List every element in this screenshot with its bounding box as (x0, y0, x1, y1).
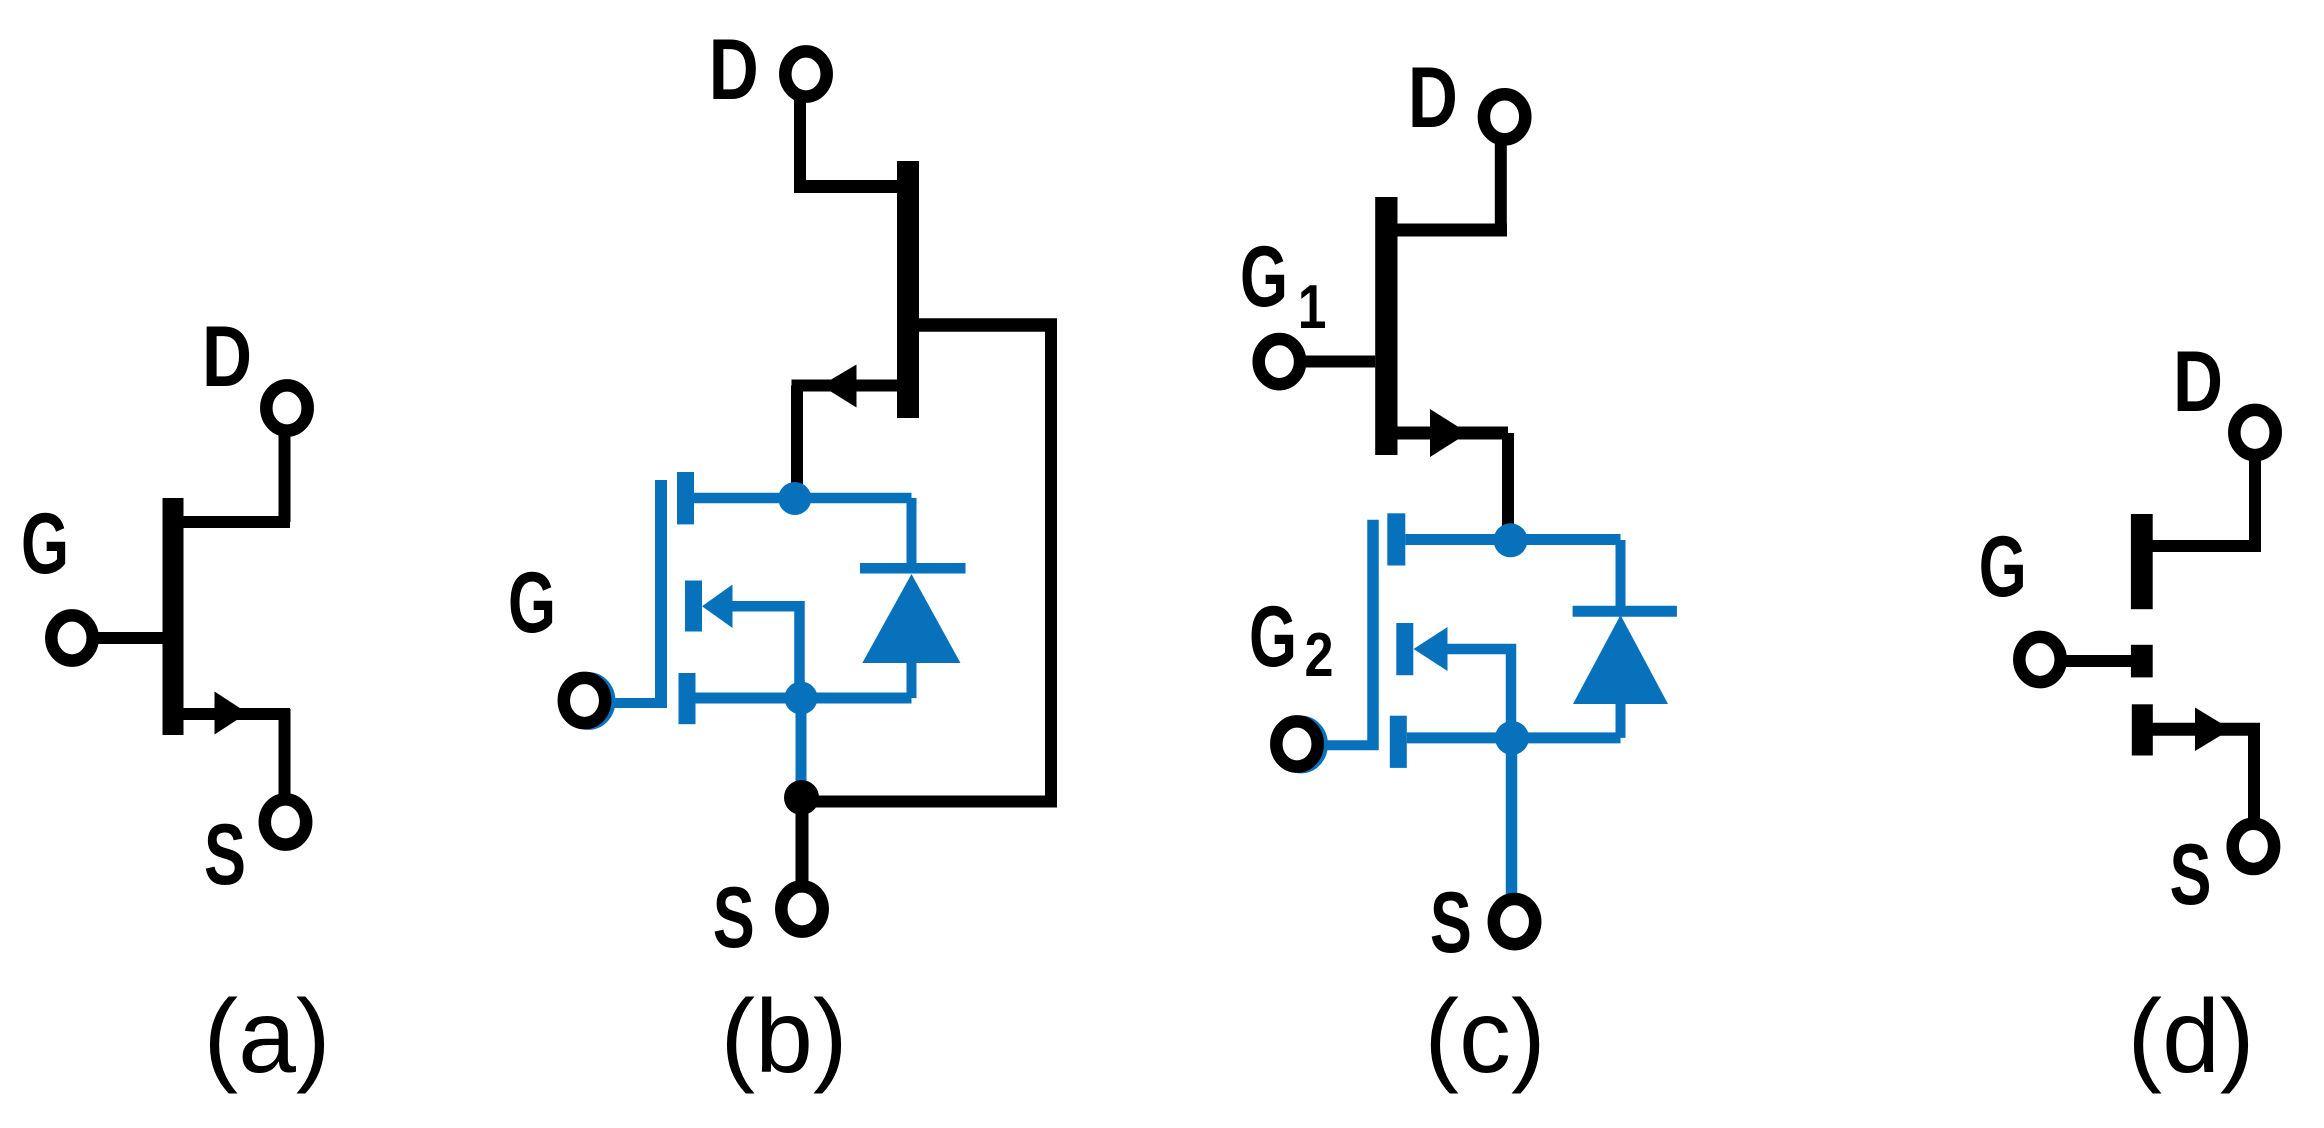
MOSFET channel bar top (b) (677, 472, 694, 524)
wire MOSFET source lead (c) (1407, 732, 1621, 743)
node S junction black dot (b) (784, 780, 819, 815)
svg-text:(c): (c) (1424, 979, 1545, 1095)
arrow MOSFET body (c) pointing left (1414, 627, 1448, 671)
diode cathode bar (c) (1573, 606, 1677, 617)
svg-text:G: G (1979, 519, 2027, 615)
wire source (a) (279, 709, 291, 797)
terminal S (d) (2233, 824, 2274, 869)
wire S blue (c) (1506, 738, 1518, 896)
wire drain arm (c) (1398, 224, 1508, 237)
svg-text:D: D (709, 22, 759, 118)
svg-text:1: 1 (1298, 273, 1326, 342)
svg-text:D: D (1408, 50, 1458, 146)
wire source node vertical blue (b) (796, 698, 807, 790)
wire HEMT gate feedback arm (b) (919, 318, 1057, 332)
terminal G (a) (51, 615, 92, 660)
svg-text:(b): (b) (720, 979, 847, 1095)
wire G1 lead (c) (1300, 356, 1375, 368)
svg-text:(d): (d) (2127, 979, 2254, 1095)
diode triangle (b) (862, 574, 960, 663)
transistor gate bar (a) (163, 498, 184, 735)
wire MOSFET source lead (b) (696, 693, 912, 704)
terminal S (c) (1494, 899, 1535, 944)
terminal G (b) blue crescent (568, 678, 609, 723)
diode cathode wire (b) (907, 498, 917, 570)
diode cathode bar (b) (860, 563, 966, 574)
arrow source (d) pointing right (2195, 708, 2231, 752)
wire feedback right vertical (b) (1045, 319, 1057, 802)
svg-text:G: G (1249, 589, 1297, 685)
svg-text:G: G (21, 496, 69, 592)
node drain junction (b) (778, 482, 811, 515)
transistor gate bar (c) (1375, 197, 1397, 455)
wire feedback bottom horizontal (b) (801, 796, 1057, 808)
MOSFET channel bar middle (c) (1396, 623, 1413, 675)
arrow HEMT source (b) pointing left (821, 365, 857, 408)
wire source arm (d) (2152, 723, 2260, 736)
wire MOSFET drain lead (c) (1405, 534, 1620, 545)
wire drain arm (a) (183, 516, 290, 528)
wire MOSFET drain lead (b) (694, 493, 912, 504)
arrow source (a) (215, 692, 248, 735)
arrow MOSFET body (b) pointing left (702, 585, 733, 629)
svg-text:S: S (2170, 827, 2212, 923)
terminal G (b) (564, 678, 605, 723)
terminal D (a) (266, 385, 307, 430)
MOSFET gate line (b) blue (655, 480, 667, 707)
terminal S (b) (781, 886, 822, 931)
transistor HEMT gate bar (b) (897, 161, 919, 418)
wire HEMT source arm (b) (792, 380, 898, 392)
wire source down (d) (2248, 729, 2260, 820)
svg-text:2: 2 (1305, 621, 1334, 690)
transistor gate bar bottom segment (d) (2132, 704, 2153, 755)
node drain junction (c) (1494, 523, 1528, 557)
svg-text:G: G (508, 555, 556, 651)
node source junction (c) (1495, 721, 1529, 755)
terminal G2 (c) (1276, 721, 1317, 766)
MOSFET channel bar bottom (b) (679, 673, 696, 724)
diode triangle (c) (1573, 615, 1668, 704)
wire MOSFET body arm (b) (731, 606, 800, 698)
wire drain (c) (1495, 141, 1507, 230)
svg-text:D: D (202, 309, 252, 405)
terminal G2 (c) blue crescent (1280, 722, 1321, 767)
diode cathode wire (c) (1616, 540, 1626, 613)
wire source down (c) (1502, 433, 1514, 540)
wire MOSFET body arm (c) (1446, 649, 1511, 738)
terminal G1 (c) (1259, 339, 1300, 384)
wire MOSFET gate lead G2 (c) blue (1310, 740, 1378, 750)
svg-text:S: S (1430, 875, 1472, 971)
svg-text:G: G (1240, 229, 1288, 325)
wire source arm (a) (183, 708, 290, 720)
wire drain (b) (794, 100, 806, 187)
terminal D (c) (1484, 94, 1525, 139)
MOSFET channel bar top (c) (1387, 513, 1405, 565)
wire gate lead (a) (93, 632, 165, 644)
svg-text:D: D (2173, 334, 2223, 430)
svg-text:(a): (a) (203, 979, 330, 1095)
svg-text:S: S (204, 807, 246, 903)
transistor gate bar top segment (d) (2131, 514, 2153, 609)
terminal D (b) (785, 51, 826, 96)
wire HEMT source down (b) (791, 386, 803, 498)
wire drain (d) (2249, 458, 2261, 544)
wire source arm (c) (1398, 427, 1509, 440)
diode anode wire (c) (1616, 700, 1626, 738)
diode anode wire (b) (907, 659, 917, 698)
svg-text:S: S (713, 870, 755, 966)
wire drain (a) (279, 434, 291, 522)
transistor gate middle square (d) (2131, 645, 2153, 678)
wire MOSFET gate lead (b) blue (596, 698, 667, 708)
MOSFET channel bar bottom (c) (1390, 716, 1407, 768)
wire gate lead (d) (2061, 655, 2131, 667)
wire drain arm (d) (2152, 540, 2262, 552)
MOSFET gate line (c) blue (1367, 520, 1379, 750)
wire S (b) (796, 797, 809, 888)
terminal G (d) (2019, 637, 2060, 682)
terminal D (d) (2234, 410, 2275, 455)
node source junction (b) (785, 682, 818, 715)
arrow source (c) pointing right (1430, 409, 1468, 457)
MOSFET channel bar middle (b) (685, 581, 702, 632)
wire drain arm (b) (794, 180, 897, 193)
terminal S (a) (265, 799, 306, 844)
